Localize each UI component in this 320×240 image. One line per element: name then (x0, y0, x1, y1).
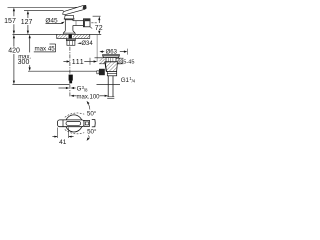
aerator tip (top view) (84, 120, 90, 126)
dimension Ø63 (99, 49, 127, 56)
faucet base (63, 31, 75, 35)
svg-text:50°: 50° (87, 110, 97, 117)
body circle (top view) (65, 115, 82, 132)
label G 3/8 (77, 85, 89, 93)
wire: extension line 127 level (24, 9, 64, 11)
threaded shank (black) (69, 34, 72, 39)
deck top line (13, 33, 102, 35)
dimension 72 (spout outlet height) (93, 16, 103, 34)
deck section at waste (hatched) (95, 58, 124, 64)
extension line for 111 (waste rod axis) (96, 35, 98, 62)
dimension 157 (4, 8, 16, 35)
dimension 127 (21, 11, 33, 35)
max.300 reference line (28, 70, 104, 72)
label max 45 with bracket (34, 44, 56, 53)
dashed swing arc down (65, 130, 84, 134)
aerator at spout end (83, 19, 92, 29)
swing envelope bracket (92, 119, 95, 127)
pop-up rod arm (97, 69, 105, 75)
faucet body (side view) (64, 19, 75, 31)
wire: extension line top (lever tip level) (8, 6, 78, 8)
dimension max.300 (18, 35, 32, 71)
tailpipe (107, 76, 114, 99)
outlet axis dash line (91, 22, 97, 24)
faucet center axis (dash-dot) (69, 47, 71, 98)
G 3/8 supply stud (black) (69, 75, 73, 84)
label 50° top with leader (87, 101, 97, 118)
G 3/8 thread dimension arrows (59, 87, 76, 89)
svg-text:111: 111 (72, 59, 84, 66)
dimension max.100 (70, 94, 108, 100)
waste body (hex, hatched) (105, 62, 118, 72)
mounting nut (67, 41, 75, 46)
washer under deck (66, 39, 75, 41)
dimension 420 (8, 35, 20, 85)
cartridge / lever pivot housing (65, 15, 75, 19)
waste bottom cap (107, 72, 116, 76)
spout (73, 21, 84, 31)
svg-text:max.100: max.100 (76, 94, 100, 100)
svg-text:G1: G1 (121, 77, 130, 84)
label Ø34 with arrow to shank (77, 41, 93, 47)
svg-text:max 45: max 45 (34, 46, 55, 53)
dimension 111 (63, 58, 97, 66)
svg-text:50°: 50° (87, 129, 97, 136)
dashed swing arc up (65, 113, 84, 117)
svg-text:/8: /8 (84, 87, 88, 92)
420 reference line (13, 83, 70, 85)
dimension 41 (52, 128, 73, 147)
label G 1 1/4 with leader line (97, 76, 136, 85)
svg-text:Ø34: Ø34 (81, 41, 93, 47)
label 50° bottom with leader (87, 129, 97, 141)
svg-text:127: 127 (21, 19, 33, 26)
lever top view (58, 120, 85, 127)
svg-text:157: 157 (4, 18, 16, 25)
label Ø45 with leader arrow to body (45, 18, 64, 25)
lever handle (side view) (63, 5, 86, 14)
svg-text:35-45: 35-45 (120, 60, 134, 66)
svg-text:41: 41 (59, 139, 67, 146)
svg-text:300: 300 (18, 59, 30, 66)
svg-text:/4: /4 (132, 79, 136, 84)
deck cross-section with hatching (57, 34, 90, 38)
plug neck in deck hole (106, 58, 116, 62)
waste plug flange (103, 55, 120, 58)
dimension 35-45 (deck thickness) (118, 58, 135, 65)
